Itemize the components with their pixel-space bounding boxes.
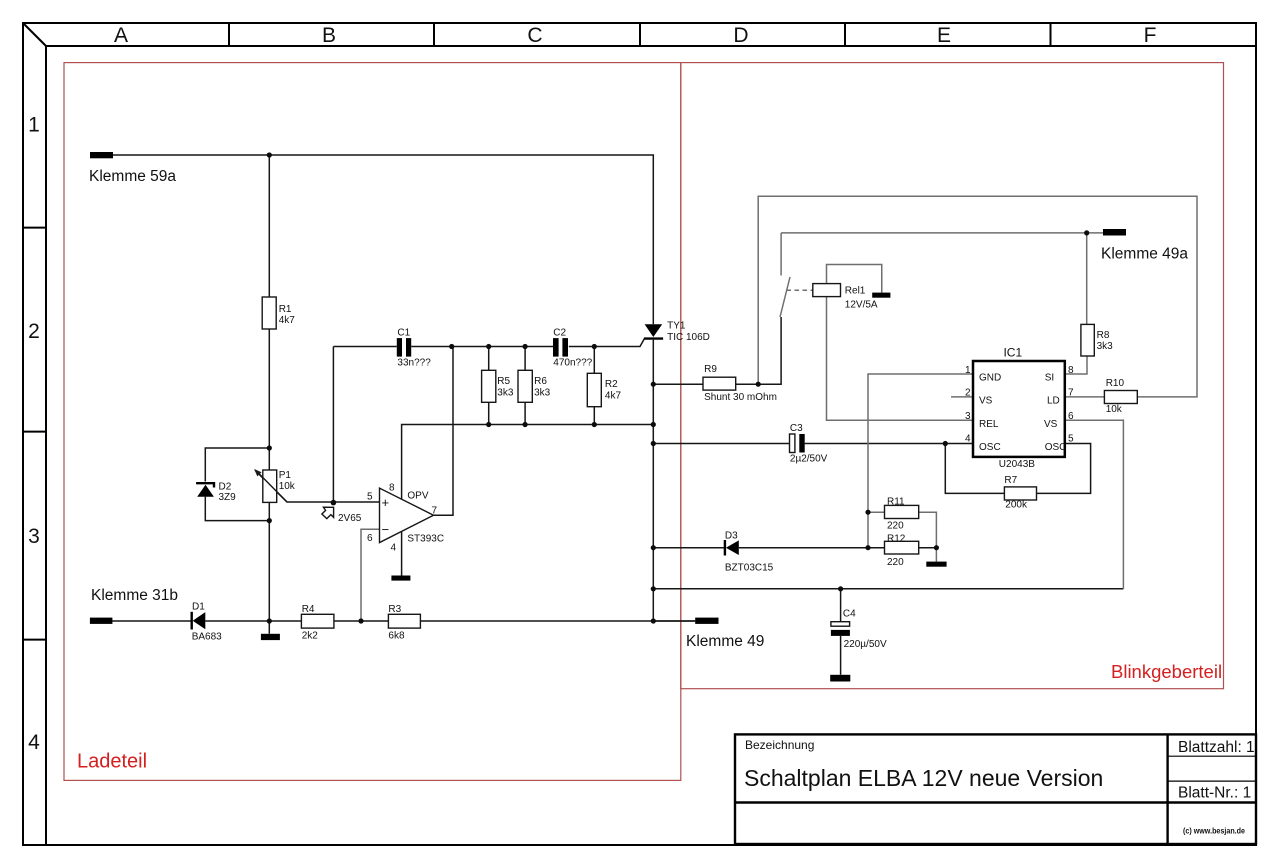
svg-text:2: 2 (28, 320, 40, 343)
svg-text:Blinkgeberteil: Blinkgeberteil (1111, 661, 1222, 682)
svg-text:VS: VS (979, 396, 993, 407)
svg-text:R10: R10 (1106, 378, 1125, 389)
svg-text:Klemme 49a: Klemme 49a (1101, 246, 1188, 263)
svg-text:R2: R2 (605, 379, 618, 390)
svg-text:E: E (937, 24, 951, 47)
svg-text:C: C (527, 24, 542, 47)
svg-text:Blattzahl: 1: Blattzahl: 1 (1178, 739, 1255, 756)
svg-text:A: A (114, 24, 128, 47)
svg-text:U2043B: U2043B (999, 459, 1035, 470)
svg-text:3k3: 3k3 (1097, 341, 1114, 352)
svg-text:5: 5 (1068, 434, 1074, 445)
svg-text:3k3: 3k3 (534, 387, 551, 398)
svg-text:1: 1 (965, 365, 971, 376)
svg-text:1: 1 (28, 114, 40, 137)
svg-text:6k8: 6k8 (388, 631, 405, 642)
svg-text:3: 3 (965, 411, 971, 422)
svg-text:(c) www.besjan.de: (c) www.besjan.de (1183, 826, 1245, 836)
svg-text:C3: C3 (790, 423, 803, 434)
svg-text:−: − (382, 522, 390, 537)
svg-text:REL: REL (979, 419, 999, 430)
svg-text:4k7: 4k7 (279, 315, 296, 326)
svg-text:+: + (382, 495, 390, 510)
svg-text:200k: 200k (1005, 500, 1028, 511)
svg-text:Schaltplan ELBA 12V neue Versi: Schaltplan ELBA 12V neue Version (744, 765, 1103, 791)
svg-text:Klemme 59a: Klemme 59a (89, 168, 176, 185)
svg-text:Rel1: Rel1 (845, 286, 866, 297)
svg-text:6: 6 (367, 533, 373, 544)
svg-text:8: 8 (389, 483, 395, 494)
svg-text:ST393C: ST393C (407, 533, 444, 544)
svg-text:R11: R11 (887, 497, 905, 508)
svg-text:3k3: 3k3 (497, 387, 514, 398)
svg-text:B: B (322, 24, 336, 47)
svg-text:R6: R6 (534, 376, 547, 387)
svg-text:220µ/50V: 220µ/50V (844, 639, 887, 650)
svg-text:F: F (1144, 24, 1157, 47)
svg-text:R5: R5 (497, 376, 510, 387)
svg-text:220: 220 (887, 557, 904, 568)
svg-text:D: D (733, 24, 748, 47)
svg-text:BZT03C15: BZT03C15 (725, 562, 774, 573)
svg-text:220: 220 (887, 521, 904, 532)
svg-text:3: 3 (28, 525, 40, 548)
svg-text:C1: C1 (397, 327, 410, 338)
svg-text:IC1: IC1 (1003, 346, 1022, 360)
svg-text:D3: D3 (725, 531, 738, 542)
svg-text:TIC 106D: TIC 106D (667, 332, 710, 343)
svg-text:12V/5A: 12V/5A (845, 300, 878, 311)
svg-text:6: 6 (1068, 411, 1074, 422)
svg-text:7: 7 (1068, 388, 1074, 399)
svg-text:4: 4 (965, 434, 971, 445)
svg-text:LD: LD (1047, 396, 1060, 407)
svg-text:D1: D1 (192, 602, 205, 613)
svg-text:R7: R7 (1004, 475, 1017, 486)
svg-text:8: 8 (1068, 365, 1074, 376)
svg-text:2V65: 2V65 (338, 513, 362, 524)
svg-text:4: 4 (391, 543, 397, 554)
svg-text:7: 7 (432, 506, 438, 517)
svg-text:2µ2/50V: 2µ2/50V (790, 453, 828, 464)
svg-text:R4: R4 (302, 604, 315, 615)
svg-text:4: 4 (28, 731, 40, 754)
svg-text:4k7: 4k7 (605, 390, 622, 401)
svg-text:Klemme 31b: Klemme 31b (91, 587, 178, 604)
svg-text:10k: 10k (1106, 404, 1123, 415)
svg-text:2k2: 2k2 (302, 631, 319, 642)
svg-text:R12: R12 (887, 533, 906, 544)
svg-text:BA683: BA683 (192, 631, 222, 642)
svg-text:5: 5 (367, 492, 373, 503)
svg-text:Ladeteil: Ladeteil (77, 751, 147, 773)
svg-text:Blatt-Nr.: 1: Blatt-Nr.: 1 (1178, 785, 1251, 802)
svg-text:2: 2 (965, 388, 971, 399)
svg-text:470n???: 470n??? (553, 357, 592, 368)
svg-text:D2: D2 (219, 482, 232, 493)
svg-text:OSC: OSC (1045, 442, 1067, 453)
svg-text:3Z9: 3Z9 (219, 492, 237, 503)
svg-text:P1: P1 (279, 470, 292, 481)
svg-text:VS: VS (1044, 419, 1058, 430)
svg-text:Klemme 49: Klemme 49 (686, 633, 764, 650)
svg-text:C2: C2 (553, 327, 566, 338)
svg-text:OSC: OSC (979, 442, 1001, 453)
svg-text:R1: R1 (279, 304, 292, 315)
svg-text:TY1: TY1 (667, 321, 686, 332)
svg-text:Bezeichnung: Bezeichnung (745, 738, 814, 752)
svg-text:OPV: OPV (407, 491, 428, 502)
svg-text:R9: R9 (704, 364, 717, 375)
svg-text:10k: 10k (279, 481, 296, 492)
svg-text:Shunt 30 mOhm: Shunt 30 mOhm (704, 392, 777, 403)
svg-text:R8: R8 (1097, 330, 1110, 341)
svg-text:GND: GND (979, 373, 1001, 384)
svg-text:R3: R3 (388, 604, 401, 615)
svg-text:33n???: 33n??? (397, 357, 431, 368)
svg-text:C4: C4 (843, 608, 856, 619)
svg-text:SI: SI (1045, 373, 1054, 384)
